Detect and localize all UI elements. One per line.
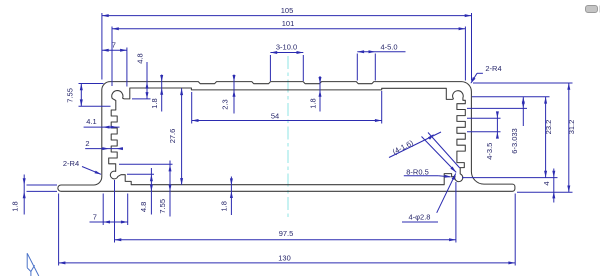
svg-text:7.55: 7.55 [66, 88, 75, 103]
dimension 4-5.0 [357, 51, 405, 53]
dimension 54 [192, 120, 382, 122]
svg-text:101: 101 [282, 19, 295, 28]
dimension 4-3.5 [496, 112, 498, 138]
dimension 7 bottom extension lines [102, 194, 104, 226]
dimension 4 right [553, 169, 555, 203]
dimension 7.55 bottom extension line [119, 163, 173, 165]
dimension 54 extension lines [191, 92, 193, 124]
dimension 2.3 plate [233, 75, 235, 114]
svg-text:1.8: 1.8 [150, 98, 159, 108]
svg-text:54: 54 [271, 112, 279, 121]
svg-text:1.8: 1.8 [11, 201, 20, 211]
dimension 4.8 top extension line [132, 98, 151, 100]
svg-text:3-10.0: 3-10.0 [276, 42, 297, 51]
dimension 6-3.033 extension line [467, 107, 527, 109]
cyan vertical centerline [287, 56, 289, 217]
dimension 97.5 [115, 239, 456, 241]
dimension 4-5.0 extension lines [356, 54, 358, 81]
dimension 2 [85, 148, 123, 150]
svg-text:27.6: 27.6 [168, 129, 177, 144]
dimension 7.55 top [80, 84, 82, 107]
dimension 130 [59, 262, 516, 264]
svg-text:4: 4 [542, 181, 551, 185]
leader 2-R4 bottom left [82, 167, 101, 175]
dimension 3-10.0 [270, 52, 303, 54]
dimension 7.55 top extension lines [79, 83, 104, 85]
svg-text:8-R0.5: 8-R0.5 [406, 167, 429, 176]
dimension 7 top extension line [126, 48, 128, 87]
svg-text:23.2: 23.2 [544, 120, 553, 135]
dimension 3-10.0 extension lines [269, 55, 271, 81]
svg-text:7.55: 7.55 [158, 199, 167, 214]
dimension 1.8 left flange [23, 175, 25, 215]
dimension 1.8 plate left [161, 75, 163, 112]
svg-text:4-φ2.8: 4-φ2.8 [409, 213, 431, 222]
svg-text:2-R4: 2-R4 [485, 64, 501, 73]
extrusion profile outer outline [58, 82, 515, 192]
dimension 7 bottom [90, 221, 128, 223]
svg-text:2-R4: 2-R4 [63, 159, 79, 168]
dimension 31.2 extension lines [473, 82, 573, 84]
dimension 105 extension lines [101, 13, 103, 80]
svg-text:2.3: 2.3 [221, 99, 230, 109]
svg-text:1.8: 1.8 [308, 98, 317, 108]
dimension 23.2 extension lines [472, 96, 550, 98]
dimension 4.8 bottom extension line [127, 173, 154, 175]
svg-text:4.8: 4.8 [136, 53, 145, 63]
svg-text:7: 7 [112, 40, 116, 49]
svg-text:97.5: 97.5 [279, 229, 294, 238]
dimension 7 top [102, 49, 127, 51]
dimension 4-3.5 extension lines [467, 117, 501, 119]
svg-text:6-3.033: 6-3.033 [510, 128, 519, 153]
dimension 101 extension lines [111, 27, 113, 87]
dimension 6-3.033 [522, 97, 524, 126]
grey UI chip [586, 6, 598, 13]
dimension 7.55 bottom [169, 161, 171, 217]
dimension 1.8 plate middle [319, 76, 321, 112]
svg-text:(4-1.6): (4-1.6) [391, 138, 415, 156]
dimension 4.8 top [146, 62, 148, 99]
dimension 1.8 left flange extension lines [27, 184, 58, 186]
dimension 101 [112, 28, 465, 30]
dimension 27.6 [181, 88, 183, 185]
dimension 4.1 [84, 126, 120, 128]
svg-text:130: 130 [278, 254, 291, 263]
UCS icon [26, 253, 28, 267]
dimension 31.2 [568, 83, 570, 192]
dimension 4.8 bottom [150, 168, 152, 215]
svg-text:1.8: 1.8 [219, 201, 228, 211]
leader 2-R4 top right [477, 72, 483, 74]
svg-text:31.2: 31.2 [567, 120, 576, 135]
dimension 105 [102, 15, 472, 17]
dimension 130 extension lines [58, 194, 60, 266]
dimension 1.8 web [230, 177, 232, 216]
dimension 23.2 [545, 97, 547, 178]
svg-text:4-5.0: 4-5.0 [380, 42, 397, 51]
svg-text:7: 7 [93, 213, 97, 222]
svg-text:4-3.5: 4-3.5 [485, 143, 494, 160]
svg-text:105: 105 [281, 6, 294, 15]
dimension 97.5 extension lines [114, 180, 116, 243]
extrusion profile inner cavity outline [109, 88, 466, 185]
svg-text:4.1: 4.1 [86, 117, 96, 126]
svg-text:2: 2 [85, 139, 89, 148]
svg-text:4.8: 4.8 [139, 202, 148, 212]
